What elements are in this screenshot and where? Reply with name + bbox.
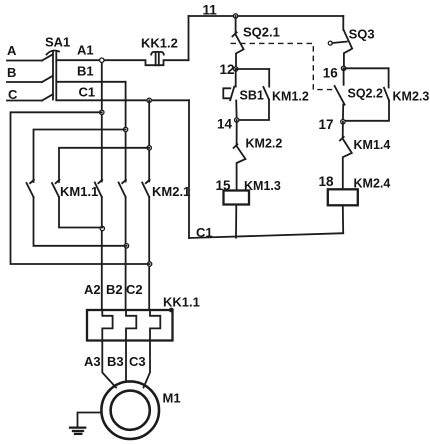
svg-text:C3: C3 (129, 354, 146, 369)
node SQ2.1 tap (233, 14, 237, 18)
pushbutton SB1 (223, 69, 236, 120)
svg-text:KM1.4: KM1.4 (354, 138, 391, 152)
wire A drop lower (101, 197, 103, 310)
limit switch SQ2.1 (232, 16, 243, 69)
svg-text:B: B (7, 65, 16, 80)
svg-text:KM2.1: KM2.1 (152, 184, 190, 199)
contact KM1.4 (340, 122, 352, 190)
wire C3 to motor (144, 341, 151, 388)
wire loop3 top (59, 148, 149, 182)
node 17 (341, 120, 345, 124)
node A1 junction (100, 58, 104, 62)
wire phase C in (7, 100, 42, 102)
node 14 (235, 118, 239, 122)
wire phase A in (7, 60, 42, 62)
wire loop1 (A to C2 swap) (11, 112, 150, 264)
svg-text:B2: B2 (106, 282, 123, 297)
svg-text:KM2.2: KM2.2 (246, 137, 283, 151)
wire A1 (56, 60, 188, 65)
wire B drop lower (125, 197, 127, 310)
wire loop3 bottom (59, 197, 102, 228)
svg-text:SA1: SA1 (45, 35, 70, 50)
svg-text:18: 18 (319, 174, 335, 189)
svg-text:14: 14 (217, 117, 233, 132)
wire branch1 parallel top (236, 68, 270, 70)
wire phase B in (7, 81, 42, 83)
svg-text:KM2.3: KM2.3 (393, 90, 430, 104)
wire control supply riser to node 11 (188, 16, 190, 60)
wire B drop upper (125, 82, 127, 182)
wire branch2 parallel top (344, 67, 389, 69)
contact KM1.2 (237, 69, 270, 120)
wire C1 feeder (188, 100, 190, 238)
node loop3-A junction (100, 226, 104, 230)
svg-text:B3: B3 (107, 354, 124, 369)
contactor contact KM2.1 pole C (56, 180, 60, 183)
svg-text:A: A (7, 43, 17, 58)
switch SA1 (42, 51, 59, 101)
thermal relay KK1.1 junction dot (169, 308, 174, 313)
svg-text:KM1.2: KM1.2 (272, 90, 309, 104)
contactor contact KM1.1 pole A (98, 180, 102, 183)
heater element phase B (126, 310, 136, 341)
svg-text:M1: M1 (163, 391, 181, 406)
svg-text:16: 16 (323, 65, 339, 80)
node loop3-C junction (147, 146, 151, 150)
wire loop2 bottom (34, 197, 127, 246)
wire loop2 top (34, 130, 126, 183)
svg-text:KK1.2: KK1.2 (141, 36, 178, 51)
wire B3 to motor (125, 341, 127, 383)
wire A3 to motor (102, 341, 116, 388)
node loop2-B bottom junction (124, 244, 128, 248)
svg-text:SQ2.1: SQ2.1 (243, 25, 280, 40)
ground (70, 413, 102, 434)
svg-text:A1: A1 (77, 43, 94, 58)
svg-text:SQ3: SQ3 (349, 27, 375, 42)
svg-text:KM2.4: KM2.4 (354, 177, 391, 191)
svg-text:KM1.1: KM1.1 (60, 184, 98, 199)
contactor contact KM1.1 pole B (122, 180, 126, 183)
wire A drop upper (101, 60, 103, 181)
mechanical linkage dashed SQ2.1-SQ2.2 (231, 43, 334, 89)
node loop2-B junction (123, 127, 127, 131)
svg-text:SQ2.2: SQ2.2 (348, 87, 383, 101)
node loop1-A junction (100, 110, 104, 114)
wire C drop lower (148, 197, 150, 310)
contactor contact KM2.1 pole B (30, 180, 34, 183)
wire C drop upper (148, 100, 150, 181)
svg-text:B1: B1 (77, 64, 94, 79)
contactor contact KM1.1 pole C (146, 180, 150, 183)
heater element phase C (150, 310, 160, 341)
node 16 (341, 66, 345, 70)
wire coil KM2.4 to C1 rail (342, 205, 344, 233)
svg-text:SB1: SB1 (240, 89, 264, 103)
wire control bottom rail (189, 233, 343, 238)
thermal relay KK1.1 box (87, 310, 173, 341)
contact KM2.2 (234, 120, 246, 191)
coil KM1.3 (224, 191, 250, 205)
motor M1 (101, 381, 159, 439)
wire coil KM1.3 to C1 rail (235, 205, 237, 238)
limit switch contact SQ2.2 (335, 68, 345, 121)
node 12 (234, 67, 238, 71)
svg-text:C2: C2 (126, 282, 143, 297)
thermal contact KK1.2 (151, 52, 164, 65)
svg-text:A2: A2 (84, 282, 101, 297)
node loop1-C bottom junction (147, 262, 151, 266)
wire C1 (56, 99, 189, 101)
svg-text:C1: C1 (79, 85, 96, 100)
coil KM2.4 (328, 189, 358, 205)
wire B1 (56, 81, 125, 83)
node C1 junction (147, 98, 151, 102)
heater element phase A (102, 310, 112, 341)
svg-text:12: 12 (220, 62, 235, 77)
svg-text:A3: A3 (84, 354, 101, 369)
svg-text:KK1.1: KK1.1 (163, 295, 200, 310)
wire control top rail (189, 15, 344, 17)
limit switch SQ3 (328, 16, 352, 68)
svg-text:17: 17 (319, 117, 334, 132)
contact KM2.3 (343, 68, 389, 121)
